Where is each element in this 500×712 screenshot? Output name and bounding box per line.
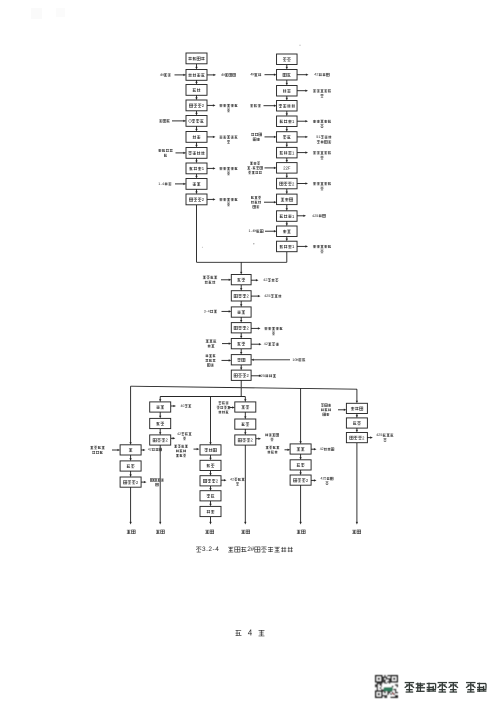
svg-text:5: 5	[268, 294, 270, 298]
svg-text:2: 2	[265, 278, 267, 282]
svg-text:F: F	[288, 166, 291, 171]
svg-text:5: 5	[324, 477, 326, 481]
svg-text:2: 2	[322, 447, 324, 451]
svg-text:2: 2	[316, 73, 318, 77]
svg-text:#: #	[251, 546, 255, 553]
svg-text:5: 5	[263, 374, 265, 378]
svg-text:4: 4	[248, 629, 253, 638]
svg-text:4: 4	[162, 182, 164, 186]
svg-text:5: 5	[380, 433, 382, 437]
svg-text:2: 2	[179, 432, 181, 436]
svg-text:0: 0	[182, 404, 184, 408]
svg-text:2: 2	[266, 342, 268, 346]
svg-text:1: 1	[318, 135, 320, 139]
svg-text:4: 4	[215, 546, 219, 553]
svg-text:2: 2	[232, 477, 234, 481]
svg-text:5: 5	[316, 214, 318, 218]
svg-text:2: 2	[150, 448, 152, 452]
svg-text:4: 4	[208, 309, 210, 313]
